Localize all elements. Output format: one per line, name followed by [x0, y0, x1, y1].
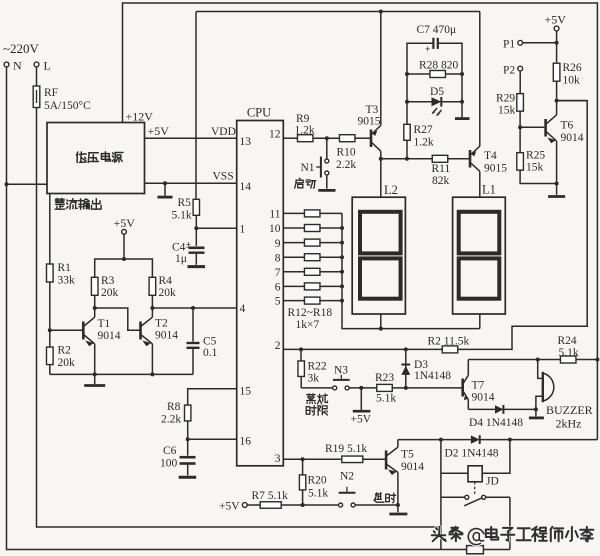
resistor R27 — [404, 102, 410, 159]
watermark — [432, 527, 594, 545]
svg-text:15k: 15k — [498, 105, 516, 117]
wire +5V mid — [122, 234, 126, 261]
wire R5 to pin1 — [194, 215, 236, 230]
svg-text:R27: R27 — [414, 124, 433, 136]
svg-text:±: ± — [186, 241, 191, 251]
wire pin12 — [283, 137, 297, 139]
resistor R20 — [299, 459, 305, 507]
resistor R4 — [149, 277, 156, 295]
wire contact line — [441, 496, 510, 498]
svg-text:33k: 33k — [58, 275, 76, 287]
wire R11-T4 — [448, 158, 469, 160]
wire L to fuse — [36, 67, 38, 86]
svg-text:9014: 9014 — [561, 132, 584, 144]
fuse RF — [33, 86, 40, 108]
svg-text:10: 10 — [269, 223, 281, 235]
wire coil right — [482, 440, 510, 474]
wire R23-T7 — [392, 386, 462, 390]
svg-text:P1: P1 — [503, 39, 515, 51]
resistor R25 — [517, 153, 524, 171]
load RL — [467, 546, 484, 554]
label +5V N3 — [351, 414, 372, 426]
svg-text:L1: L1 — [482, 183, 496, 197]
label VDD — [211, 126, 236, 138]
label R8 — [161, 401, 181, 426]
svg-text:13: 13 — [240, 136, 252, 148]
label C4 — [172, 242, 187, 266]
capacitor C4 — [186, 228, 205, 266]
wire N to power box — [7, 183, 48, 185]
ground astable — [84, 374, 105, 385]
svg-text:R4: R4 — [159, 275, 173, 287]
label JD — [486, 476, 499, 488]
transistor T1 — [83, 317, 94, 346]
terminal +5V right — [554, 26, 559, 31]
wire C7 left — [407, 43, 433, 102]
terminal P1 — [503, 39, 523, 51]
pin 14 label — [240, 181, 252, 193]
wire coil left — [440, 440, 442, 550]
svg-text:T6: T6 — [561, 120, 574, 132]
node rail T3 — [379, 10, 383, 14]
label BUZZER — [546, 403, 593, 431]
pin 7 label — [275, 267, 281, 279]
svg-text:R29: R29 — [496, 93, 515, 105]
resistor R28 — [407, 71, 462, 78]
diode D2 — [471, 435, 598, 444]
svg-text:5.1k: 5.1k — [559, 347, 579, 359]
svg-text:14: 14 — [240, 181, 252, 193]
resistor R10 — [339, 135, 355, 142]
svg-text:R5: R5 — [178, 197, 192, 209]
wire R24 right — [576, 358, 599, 362]
terminal P2 — [503, 64, 523, 76]
svg-text:N1: N1 — [301, 162, 315, 174]
transistor T6 — [546, 115, 557, 143]
svg-text:12: 12 — [269, 129, 281, 141]
node seg bus — [340, 284, 344, 288]
svg-text:0.1: 0.1 — [203, 347, 218, 359]
svg-text:9015: 9015 — [358, 116, 381, 128]
svg-text:9014: 9014 — [155, 330, 178, 342]
svg-text:C7 470μ: C7 470μ — [417, 24, 457, 36]
label R28 — [419, 60, 459, 72]
pin 13 label — [240, 136, 252, 148]
display L1 box — [453, 197, 506, 314]
svg-text:3k: 3k — [308, 373, 320, 385]
label L1 — [482, 183, 496, 197]
resistor R29 — [517, 94, 524, 112]
node N-box — [5, 182, 9, 186]
svg-text:T5: T5 — [401, 449, 414, 461]
switch N1 — [316, 138, 329, 177]
svg-text:15: 15 — [240, 386, 252, 398]
wire R1 chain — [49, 194, 51, 264]
terminal L — [34, 59, 51, 73]
svg-text:R3: R3 — [101, 275, 115, 287]
pin 3 label — [275, 453, 281, 465]
wire rail drop to R5 — [195, 12, 197, 200]
wire R19-T5 — [363, 458, 386, 460]
svg-text:16: 16 — [240, 436, 252, 448]
label R25 — [526, 150, 545, 174]
resistor R16 — [283, 268, 342, 275]
wire P2 — [519, 71, 521, 94]
wire R22-N3 — [301, 387, 333, 389]
label D4 — [469, 417, 523, 429]
svg-text:2.2k: 2.2k — [161, 414, 181, 426]
wire RL right — [483, 549, 510, 551]
node seg bus — [340, 241, 344, 245]
wire collector bus — [381, 157, 432, 161]
svg-text:2.2k: 2.2k — [336, 159, 356, 171]
svg-text:5.1k: 5.1k — [376, 393, 396, 405]
buzzer — [536, 360, 554, 410]
wire T6 base — [520, 126, 544, 128]
wire R2 bottom — [49, 365, 51, 375]
terminal +5V mid — [122, 229, 127, 234]
terminal N — [4, 59, 22, 73]
IC CPU box — [237, 121, 284, 466]
wire N3-R23 — [349, 386, 377, 390]
wire C7 right — [439, 43, 462, 117]
wire +5V VDD — [145, 137, 237, 139]
pin 6 label — [275, 282, 281, 294]
svg-text:T2: T2 — [155, 318, 168, 330]
svg-text:6: 6 — [275, 282, 281, 294]
display L1 digit — [459, 212, 500, 299]
label T1 — [98, 318, 121, 342]
node D5 L — [405, 100, 409, 104]
wire coil left2 — [441, 472, 468, 474]
label L2 — [384, 183, 398, 197]
wire R1-R2 — [48, 282, 52, 347]
ground T5 — [389, 513, 407, 516]
label RF — [44, 87, 91, 112]
label +12V — [126, 110, 154, 124]
pin 5 label — [275, 296, 281, 308]
display L2 digit — [360, 212, 401, 299]
wire L2 bottom — [379, 314, 383, 331]
wire seg bus — [342, 213, 480, 328]
svg-text:R22: R22 — [308, 361, 327, 373]
label ~220V — [3, 41, 40, 56]
svg-text:R2 11.5k: R2 11.5k — [428, 336, 470, 348]
svg-text:R26: R26 — [563, 62, 582, 74]
wire T3 collector — [379, 151, 383, 161]
svg-text:+5V: +5V — [114, 216, 136, 230]
svg-text:+5V: +5V — [148, 124, 170, 138]
resistor R13 — [283, 225, 342, 232]
display L2 box — [352, 197, 405, 314]
ground D4 — [529, 409, 544, 418]
svg-text:R28 820: R28 820 — [419, 60, 459, 72]
svg-text:9014: 9014 — [98, 330, 121, 342]
wire T5 collector — [397, 440, 399, 448]
svg-text:1μ: 1μ — [175, 253, 187, 265]
capacitor C5 — [187, 308, 200, 374]
wire T7 emitter — [467, 400, 469, 410]
resistor R11 — [432, 155, 448, 162]
svg-text:R11: R11 — [432, 163, 451, 175]
wire +5V inner rail — [196, 11, 480, 13]
label 低压电源 — [76, 152, 123, 163]
relay JD — [468, 466, 482, 482]
svg-text:2kHz: 2kHz — [556, 417, 582, 431]
svg-text:20k: 20k — [58, 357, 76, 369]
pin 8 label — [275, 253, 281, 265]
label T2 — [155, 318, 178, 342]
label T4 — [484, 150, 507, 175]
svg-text:+5V: +5V — [351, 414, 372, 426]
svg-text:D4 1N4148: D4 1N4148 — [469, 417, 523, 429]
svg-text:20k: 20k — [101, 287, 119, 299]
node D5 R — [460, 100, 464, 104]
pin 11 label — [269, 209, 280, 221]
label C7 — [417, 24, 457, 36]
svg-text:5.1k: 5.1k — [308, 488, 328, 500]
svg-text:R25: R25 — [526, 150, 545, 162]
svg-text:1.2k: 1.2k — [295, 125, 315, 137]
svg-text:N2: N2 — [340, 471, 354, 483]
svg-text:1N4148: 1N4148 — [414, 370, 451, 382]
svg-text:+: + — [425, 45, 430, 55]
wire T2 collector — [150, 295, 154, 317]
diode D4 — [468, 405, 538, 414]
svg-text:T1: T1 — [98, 318, 111, 330]
svg-text:7: 7 — [275, 267, 281, 279]
pin 15 label — [240, 386, 252, 398]
svg-text:20k: 20k — [159, 287, 177, 299]
svg-text:N3: N3 — [334, 365, 348, 377]
transistor T2 — [141, 317, 153, 346]
ground T6 — [548, 184, 565, 197]
label CPU — [247, 106, 271, 120]
capacitor C7 — [425, 38, 438, 55]
svg-text:L2: L2 — [384, 183, 398, 197]
transistor T7 — [463, 375, 469, 400]
svg-text:15k: 15k — [526, 162, 544, 174]
label R26 — [563, 62, 582, 87]
node VSS gnd — [163, 181, 167, 185]
svg-text:R19 5.1k: R19 5.1k — [325, 443, 367, 455]
svg-text:2: 2 — [275, 340, 281, 352]
label R2 — [428, 336, 470, 348]
wire R10-T3 — [355, 137, 370, 139]
diode D5 LED — [407, 97, 462, 116]
switch N2 — [339, 487, 356, 507]
svg-text:RF: RF — [44, 87, 58, 99]
ground VSS — [158, 183, 173, 197]
pin 1 label — [240, 224, 246, 236]
pin 4 label — [240, 303, 246, 315]
svg-text:D5: D5 — [430, 86, 444, 98]
label T6 — [561, 120, 584, 145]
wire bottom astable — [50, 372, 193, 376]
label 整流输出 — [55, 199, 101, 210]
svg-text:8: 8 — [275, 253, 281, 265]
resistor R2 — [442, 346, 458, 353]
diode D3 — [401, 349, 410, 388]
svg-text:R24: R24 — [558, 335, 577, 347]
resistor R15 — [283, 254, 342, 261]
node seg bus — [340, 270, 344, 274]
label R24 — [558, 335, 579, 359]
wire R29-R25 — [518, 111, 522, 152]
label +5V right — [545, 13, 567, 27]
svg-text:N: N — [13, 59, 22, 73]
transistor T4 — [470, 146, 480, 171]
svg-text:10k: 10k — [563, 75, 581, 87]
wire pin3 — [283, 457, 341, 461]
svg-text:3: 3 — [275, 453, 281, 465]
wire N2-T5 — [355, 504, 398, 506]
wire R2 to T6 — [458, 101, 587, 350]
switch N3 — [333, 375, 350, 390]
svg-text:C5: C5 — [203, 336, 217, 348]
label R19 — [325, 443, 367, 455]
svg-text:1.2k: 1.2k — [414, 137, 434, 149]
wire T1 base — [50, 329, 83, 331]
pin 16 label — [240, 436, 252, 448]
svg-text:9: 9 — [275, 238, 281, 250]
relay dashed link — [474, 482, 476, 494]
wire T3 emitter riser — [380, 12, 382, 126]
svg-text:VDD: VDD — [211, 126, 236, 138]
label T7 — [472, 380, 495, 404]
svg-text:1k×7: 1k×7 — [296, 319, 320, 331]
label R3 — [101, 275, 119, 299]
label C5 — [203, 336, 218, 360]
label D3 — [414, 359, 451, 382]
wire L vertical+bottom — [37, 108, 441, 528]
svg-text:R8: R8 — [167, 401, 181, 413]
node seg bus — [340, 255, 344, 259]
wire T6 collector — [557, 101, 588, 115]
resistor R14 — [283, 239, 342, 246]
resistor R22 — [298, 349, 304, 388]
label R23 — [375, 372, 396, 405]
wire R26 bottom — [555, 81, 559, 102]
resistor R18 — [283, 297, 342, 304]
svg-text:R1: R1 — [58, 262, 72, 274]
label R4 — [159, 275, 177, 299]
svg-text:R2: R2 — [58, 345, 72, 357]
resistor R8 — [185, 405, 191, 421]
resistor R9 — [297, 135, 313, 142]
svg-text:T4: T4 — [484, 150, 497, 162]
capacitor C6 — [179, 439, 197, 477]
resistor R12 — [283, 210, 342, 217]
wire R9-R10 — [313, 136, 340, 140]
resistor R3 — [91, 277, 98, 295]
label R7 — [252, 490, 289, 502]
label D5 — [430, 86, 444, 98]
wire L1 bottom — [479, 314, 481, 329]
pin 2 label — [275, 340, 281, 352]
svg-text:11: 11 — [269, 209, 280, 221]
svg-text:BUZZER: BUZZER — [546, 403, 593, 417]
svg-text:9014: 9014 — [472, 392, 495, 404]
wire R3R4 top — [95, 259, 153, 277]
svg-text:R7 5.1k: R7 5.1k — [252, 490, 289, 502]
svg-text:9015: 9015 — [484, 163, 507, 175]
resistor R17 — [283, 283, 342, 290]
svg-text:T7: T7 — [472, 380, 485, 392]
resistor R7 — [260, 502, 281, 509]
label C6 — [160, 445, 178, 470]
transistor T3 — [371, 125, 381, 151]
label +5V box — [148, 124, 170, 138]
wire T4 collector — [479, 171, 481, 197]
transistor T5 — [386, 447, 398, 475]
pin 9 label — [275, 238, 281, 250]
wire +5V right — [555, 31, 559, 62]
label R27 — [414, 124, 434, 149]
wire +12V riser — [123, 3, 598, 440]
svg-text:5: 5 — [275, 296, 281, 308]
label R10 — [336, 147, 356, 172]
wire cross couple — [95, 308, 140, 330]
svg-text:1: 1 — [240, 224, 246, 236]
label N1 — [301, 162, 315, 174]
label R20 — [308, 475, 329, 500]
svg-text:R23: R23 — [375, 372, 394, 384]
svg-text:T3: T3 — [366, 104, 379, 116]
svg-text:82k: 82k — [432, 175, 450, 187]
label 1k x7 — [296, 319, 320, 331]
label R5 — [172, 197, 192, 222]
+5V tap N3 — [353, 388, 371, 411]
resistor R23 — [377, 384, 393, 391]
label T3 — [358, 104, 381, 128]
resistor R5 — [193, 199, 199, 215]
label 蒸炖时限 — [306, 394, 327, 416]
svg-text:C6: C6 — [163, 445, 177, 457]
wire pin15 — [188, 389, 237, 405]
node seg bus — [340, 226, 344, 230]
resistor R24 — [560, 356, 576, 363]
svg-text:100: 100 — [160, 458, 178, 470]
wire T6 emitter — [555, 141, 559, 186]
label R2b — [58, 345, 76, 370]
svg-text:P2: P2 — [503, 64, 515, 76]
label +5V mid — [114, 216, 136, 230]
svg-text:R12~R18: R12~R18 — [288, 307, 333, 319]
terminal +5V left — [242, 503, 247, 508]
wire T1 collector — [93, 295, 97, 317]
label VSS — [213, 171, 234, 183]
label N2 — [340, 471, 354, 483]
resistor R1 — [47, 264, 54, 282]
svg-text:5.1k: 5.1k — [172, 210, 192, 222]
wire pin2 — [283, 347, 442, 351]
wire N vertical+bottom — [7, 67, 467, 550]
svg-text:+5V: +5V — [219, 501, 240, 513]
svg-text:+5V: +5V — [545, 13, 567, 27]
wire R24 line — [468, 358, 560, 362]
svg-text:R9: R9 — [296, 113, 310, 125]
wire T2 emitter — [151, 344, 153, 375]
node seg bus — [340, 299, 344, 303]
svg-text:C4: C4 — [172, 242, 186, 254]
power supply box — [47, 123, 145, 194]
ground C7 — [455, 117, 470, 120]
node R28 R — [460, 72, 464, 76]
svg-text:~220V: ~220V — [3, 41, 40, 56]
wire D2 line — [398, 438, 471, 442]
svg-text:R10: R10 — [337, 147, 356, 159]
